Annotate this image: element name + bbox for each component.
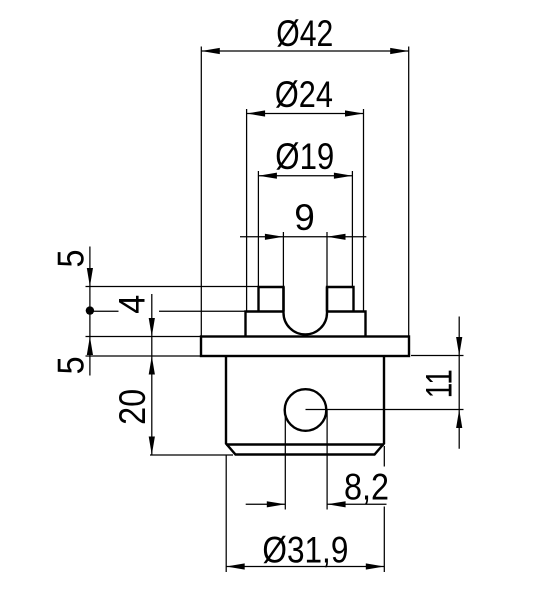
svg-text:8,2: 8,2 [344, 467, 389, 508]
svg-text:Ø42: Ø42 [276, 13, 333, 54]
svg-text:5: 5 [50, 250, 91, 268]
svg-text:Ø31,9: Ø31,9 [262, 530, 348, 571]
svg-text:5: 5 [51, 356, 92, 374]
svg-text:9: 9 [294, 197, 315, 238]
svg-text:Ø24: Ø24 [275, 74, 333, 115]
svg-text:20: 20 [112, 389, 153, 425]
svg-text:Ø19: Ø19 [275, 136, 334, 177]
svg-text:4: 4 [112, 295, 153, 314]
svg-text:11: 11 [418, 369, 459, 398]
